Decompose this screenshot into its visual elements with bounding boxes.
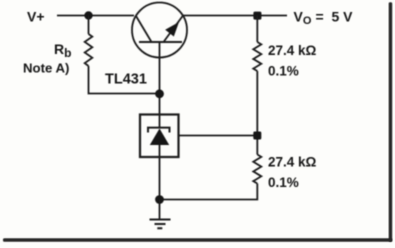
transistor Q1 emitter arrow [165, 22, 179, 37]
svg-text:0.1%: 0.1% [268, 64, 299, 79]
svg-text:TL431: TL431 [105, 72, 147, 88]
wire: TL431 reference to divider tap [179, 135, 258, 137]
transistor Q1 emitter diagonal [164, 16, 184, 43]
wire: junction down to Rb top [88, 16, 90, 35]
wire: anode lead down to ground node [159, 145, 161, 200]
frame border right [389, 2, 393, 242]
transistor Q1 collector diagonal [136, 16, 152, 42]
wire: R1 bottom to ref node [256, 71, 258, 155]
resistor R1 (upper 27.4 k) [253, 42, 261, 71]
wire: Rb bottom to TL431 cathode node [89, 66, 160, 94]
wire: emitter to VO output rail [183, 15, 287, 17]
TL431 cathode bar with end hooks [148, 128, 170, 133]
svg-text:0.1%: 0.1% [268, 175, 299, 190]
transistor Q1 body circle [132, 3, 187, 58]
svg-text:VO=5 V: VO=5 V [294, 9, 354, 28]
wire: transistor base lead down [159, 42, 161, 115]
resistor Rb [85, 34, 93, 66]
svg-text:27.4 kΩ: 27.4 kΩ [268, 43, 317, 58]
node: divider tap / reference junction [253, 132, 261, 140]
ground [150, 220, 171, 229]
wire: ground node down to ground symbol [159, 200, 161, 219]
node: base / TL431 cathode / Rb junction [155, 89, 164, 98]
TL431 U1 box [140, 115, 179, 158]
transistor Q1 base bar [139, 41, 182, 43]
frame border bottom [3, 238, 392, 242]
wire: R2 bottom to ground rail [160, 184, 258, 200]
TL431 anode triangle [150, 129, 169, 146]
svg-text:V+: V+ [27, 9, 45, 25]
node: V+ / Rb junction [84, 11, 92, 19]
resistor R2 (lower 27.4 k) [253, 155, 261, 184]
wire: VO node down to R1 top [256, 16, 258, 43]
svg-text:Note A): Note A) [23, 61, 69, 76]
svg-text:27.4 kΩ: 27.4 kΩ [268, 155, 317, 170]
wire: cathode stub inside box [159, 115, 161, 128]
node: ground rail junction [155, 195, 164, 204]
node: VO output junction [253, 12, 261, 20]
wire: V+ supply rail to transistor collector [57, 15, 134, 17]
